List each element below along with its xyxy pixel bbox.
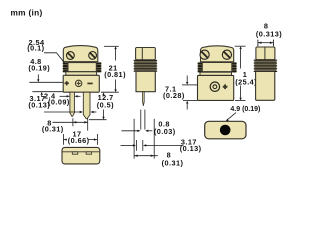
female side view ribs — [254, 60, 277, 72]
svg-text:(0.03): (0.03) — [154, 127, 176, 136]
male side view cap — [136, 48, 156, 60]
dim 2.54 leader — [44, 53, 65, 63]
pin left — [70, 92, 75, 116]
dim 3.17 up arrow — [41, 94, 43, 96]
dim 21 line — [114, 46, 116, 49]
male bottom view parting line — [62, 151, 100, 153]
polarity minus symbol — [87, 83, 92, 85]
female screw right — [222, 50, 231, 59]
jaw rib stack right — [96, 62, 101, 73]
female rib stack right — [232, 62, 237, 72]
male front body — [63, 75, 99, 92]
male bottom view body — [62, 147, 100, 164]
screw right — [89, 52, 97, 60]
dim 3.17 line to right pin — [44, 111, 81, 113]
svg-text:(0.81): (0.81) — [104, 70, 126, 79]
svg-text:(0.13): (0.13) — [28, 100, 50, 109]
dim 0.8 arrows — [122, 130, 139, 132]
female socket circles — [210, 82, 219, 91]
female neck band — [200, 72, 232, 75]
svg-text:(0.09): (0.09) — [48, 98, 70, 107]
polarity plus symbol — [65, 81, 69, 85]
female cap bottom line — [201, 61, 234, 63]
female jaw centre panel — [202, 63, 232, 72]
dim 4.9 leader — [227, 113, 236, 120]
pin centre extension lines — [72, 118, 74, 126]
dim 12.7 top arrow — [103, 94, 105, 97]
male side view ribs — [134, 60, 158, 71]
neck band — [66, 72, 97, 76]
svg-text:(0.1): (0.1) — [27, 44, 44, 53]
svg-text:4.9 (0.19): 4.9 (0.19) — [230, 106, 260, 113]
dim 12.7 bottom arrow — [103, 110, 105, 118]
male side view pin blade — [143, 92, 145, 106]
dim 4.8 reference line — [29, 81, 63, 83]
svg-text:(0.5): (0.5) — [97, 100, 114, 109]
body bottom extension line left — [32, 91, 63, 93]
female bottom view body — [205, 121, 246, 139]
female front view cap — [201, 46, 234, 62]
dim 2.4 arrows — [60, 95, 68, 97]
dim 7.1 bottom extension — [183, 100, 197, 102]
dim 8 extension lines (side) — [133, 119, 135, 159]
screw left — [67, 52, 75, 60]
male connector front view cap — [63, 46, 98, 62]
female side view cap divider — [264, 47, 266, 59]
dim 1 (25.4) extensions — [235, 45, 246, 47]
dim 21 bottom extension — [101, 91, 119, 93]
male side view body — [136, 71, 155, 91]
male bottom view slot left — [72, 152, 78, 154]
dim 3.17 arrows (side) — [121, 144, 135, 146]
pin right — [83, 92, 90, 119]
svg-text:(25.4): (25.4) — [235, 77, 257, 86]
dim 17 line — [63, 139, 97, 141]
dim 3.17 extension lines (side) — [135, 140, 137, 151]
svg-text:(0.66): (0.66) — [68, 136, 90, 145]
dim 1 (25.4) line — [239, 46, 241, 49]
earth circle-plus symbol — [75, 80, 81, 86]
dim 8 (0.313) bars — [257, 40, 259, 47]
dim 8 line (side) — [134, 155, 158, 157]
dim 0.8 extension lines — [140, 110, 142, 130]
female screw left — [200, 50, 209, 59]
cap bottom line — [63, 61, 98, 63]
svg-text:(0.13): (0.13) — [180, 144, 202, 153]
svg-text:(0.28): (0.28) — [163, 91, 185, 100]
dim 7.1 top extension — [182, 84, 197, 86]
pin tip extension line — [89, 119, 107, 121]
male bottom view slot right — [86, 152, 92, 154]
dim 7.1 arrows — [186, 76, 188, 83]
svg-text:(0.31): (0.31) — [162, 159, 184, 168]
svg-text:(0.31): (0.31) — [42, 125, 64, 134]
dim 8 line — [53, 121, 88, 123]
jaw rib stack left — [63, 62, 68, 73]
dim 8 (0.313) line — [258, 42, 274, 44]
female plus symbol — [223, 84, 228, 89]
female body — [198, 75, 234, 100]
female side view body — [256, 72, 275, 101]
jaw centre panel — [68, 63, 96, 72]
svg-text:(0.19): (0.19) — [28, 64, 50, 73]
female bottom view cable hole — [220, 125, 231, 136]
dim 4.8 arrow — [37, 74, 39, 80]
svg-text:(0.313): (0.313) — [256, 29, 282, 38]
female rib stack left — [198, 62, 203, 72]
male side view cap divider — [141, 48, 143, 60]
svg-text:mm (in): mm (in) — [11, 8, 43, 18]
dim 17 extension lines — [62, 134, 64, 145]
female side view cap — [256, 47, 275, 60]
dim 21 top extension — [104, 45, 119, 47]
